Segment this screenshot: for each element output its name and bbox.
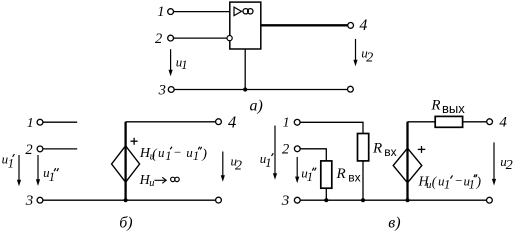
u2 label (b) [231,154,243,174]
pin label 1 (b) [27,116,34,131]
plus sign (v) [418,146,426,153]
inverting input circle [227,36,232,41]
u1'' label (v) [301,165,316,184]
svg-text:2: 2 [282,142,289,158]
Rin1 label (v) [372,141,397,159]
svg-text:): ) [201,147,207,162]
svg-text:1: 1 [265,156,271,170]
svg-text:R: R [372,141,382,157]
svg-text:u: u [158,145,165,160]
svg-text:4: 4 [228,112,236,131]
terminal 3 (b) [37,197,43,203]
bottom right terminal (v) [487,197,493,203]
u2 label (v) [500,154,513,173]
Rin1 bottom stub (v) [362,161,364,200]
wire terminal1 to op-amp [174,11,230,13]
svg-text:1: 1 [283,116,290,131]
svg-text:1: 1 [49,170,55,184]
svg-text:а): а) [250,98,263,115]
op-amp U1 body [230,2,261,49]
pin label 3 (v) [281,193,290,209]
svg-text:1: 1 [469,178,475,192]
terminal 4 (v) [487,119,493,125]
terminal 1 (v) [294,119,300,125]
svg-text:4: 4 [359,17,367,34]
svg-text:1: 1 [181,58,187,72]
svg-text:R: R [430,97,440,113]
terminal 1 [168,9,174,15]
wire terminal1 to Rin1 (v) [300,122,363,133]
terminal 4 [348,23,354,29]
u1' voltage arrow (b) [17,155,21,186]
svg-text:1: 1 [165,149,171,163]
u2 voltage arrow circuit a [353,39,357,66]
svg-text:1: 1 [8,156,14,170]
stub wire 2 (b) [43,148,77,150]
svg-text:): ) [476,174,482,189]
u1'' voltage arrow (v) [295,157,299,183]
svg-text:u: u [149,178,154,189]
u2 voltage arrow (v) [492,142,496,185]
junction dot (b) [124,198,128,202]
svg-text:1: 1 [307,170,313,184]
bottom wire (b) [43,199,216,201]
junction dot source (v) [405,198,409,202]
pin label 2 (b) [25,142,32,158]
terminal 2 [168,35,174,41]
svg-text:2: 2 [25,142,32,158]
caption a) [250,98,263,115]
stub wire 1 (b) [43,121,77,123]
junction dot Rin1 (v) [361,198,365,202]
pin label 3 (b) [25,193,34,209]
pin label 2 (v) [282,142,289,158]
Rout label (v) [430,97,465,116]
u1 voltage arrow [169,49,173,76]
op-amp ground stub wire [244,49,246,90]
svg-text:в): в) [388,215,400,232]
caption v) [388,215,400,232]
op-amp infinity gain symbol [243,9,253,14]
top wire to Rout (v) [408,121,436,123]
junction dot circuit a [243,87,247,91]
source value label Hu(u1'-u1'') (b) [139,144,207,162]
svg-text:2: 2 [235,158,242,173]
terminal 3 (v) [294,197,300,203]
op-amp gain triangle [234,7,242,16]
bottom wire circuit a [174,89,347,91]
bottom right terminal (b) [216,197,222,203]
terminal 3 [168,87,174,93]
terminal 2 (v) [294,146,300,152]
svg-text:4: 4 [499,115,507,131]
pin label 4 (v) [499,115,507,131]
resistor Rin2 body (v) [321,161,332,188]
pin label 1 (v) [283,116,290,131]
vertical wire through source (b, thick) [124,122,126,200]
op-amp output wire (thick) [261,24,348,26]
Rin2 label (v) [336,166,361,185]
pin label 4 [359,17,367,34]
u1'' voltage arrow (b) [36,155,40,186]
caption b) [119,215,132,232]
svg-text:2: 2 [155,31,162,47]
svg-text:3: 3 [25,193,34,209]
svg-text:3: 3 [281,193,290,209]
svg-text:1: 1 [444,178,450,192]
u1 label [176,54,188,72]
bottom right terminal circuit a [348,86,354,92]
wire Rout to terminal 4 (v) [463,121,487,123]
resistor Rout body (v) [435,116,462,127]
svg-text:б): б) [119,215,132,232]
svg-text:2: 2 [366,50,373,65]
Rin2 bottom stub (v) [325,188,327,200]
bottom wire (v) [300,199,487,201]
svg-text:R: R [336,166,346,182]
pin label 3 [158,83,166,99]
u1' label (v) [260,151,274,170]
terminal 2 (b) [37,146,43,152]
svg-text:вых: вых [442,101,465,116]
u1' voltage arrow (v) [273,126,277,180]
pin label 2 [155,31,162,47]
u1' label (b) [2,152,15,171]
controlled source diamond (b) [112,146,140,182]
svg-text:−: − [173,144,182,159]
svg-text:1: 1 [27,116,34,131]
svg-text:1: 1 [157,4,164,20]
top wire (b) [126,121,216,123]
svg-text:2: 2 [506,158,513,173]
pin label 1 [157,4,164,20]
terminal 4 (b) [216,119,222,125]
pin label 4 (b) [228,112,236,131]
controlled source diamond (v) [393,148,422,183]
junction dot Rin2 (v) [324,198,328,202]
resistor Rin1 body (v) [358,134,369,161]
svg-text:вх: вх [348,171,360,185]
terminal 1 (b) [37,119,43,125]
plus sign (b) [131,138,138,145]
u2 voltage arrow (b) [221,152,225,182]
wire terminal2 to inverting input [174,37,227,39]
vertical wire through source (v, thick) [406,122,408,200]
source value label Hu(u1'-u1'') (v) [418,173,482,192]
u2 label circuit a [361,46,373,66]
gain condition label Hu -> infinity (b) [139,173,180,189]
svg-text:1: 1 [193,149,199,163]
svg-text:3: 3 [158,83,166,99]
u1'' label (b) [43,165,58,184]
svg-text:вх: вх [384,145,396,159]
svg-text:−: − [454,173,463,188]
wire terminal2 to Rin2 (v) [300,149,326,161]
